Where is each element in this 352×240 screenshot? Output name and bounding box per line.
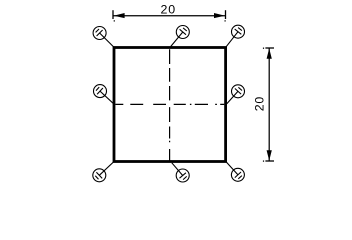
marker bottom-left: leader [99, 162, 113, 175]
marker right-middle: leader [227, 91, 238, 104]
marker bottom-middle: leader [172, 163, 183, 176]
marker top-right: hatch lines [235, 28, 242, 35]
svg-text:20: 20 [253, 96, 267, 111]
marker top-right: circle [232, 25, 245, 38]
marker bottom-left: circle [93, 169, 106, 182]
marker right-middle: circle [232, 85, 245, 98]
marker top-middle: circle [176, 26, 189, 39]
right dimension bottom extension tick [265, 160, 274, 162]
top dimension right extension dot [224, 20, 226, 21]
marker left-middle: circle [94, 85, 107, 98]
square outline 20x20 [114, 48, 226, 162]
top dimension line [113, 15, 226, 17]
right dimension top arrowhead [267, 50, 271, 58]
marker top-right: leader [226, 32, 238, 47]
right dimension bottom arrowhead [267, 151, 271, 159]
marker top-middle: hatch lines [180, 28, 187, 35]
vertical centerline [169, 49, 171, 160]
svg-text:20: 20 [161, 3, 176, 17]
right dimension line [268, 48, 270, 161]
marker bottom-left: hatch lines [95, 172, 102, 179]
marker top-left: circle [93, 27, 106, 40]
right dimension top extension dot [263, 47, 264, 49]
horizontal centerline [115, 103, 224, 105]
marker bottom-right: circle [231, 168, 244, 181]
marker right-middle: hatch lines [235, 87, 242, 94]
top dimension right extension tick [225, 10, 227, 19]
marker bottom-right: hatch lines [235, 172, 242, 179]
right dimension top extension tick [265, 47, 274, 49]
top dimension right arrowhead [214, 14, 223, 18]
marker bottom-middle: hatch lines [180, 173, 187, 180]
marker left-middle: hatch lines [96, 87, 103, 94]
top dimension left extension dot [113, 20, 115, 21]
marker left-middle: leader [100, 91, 114, 104]
top dimension left arrowhead [116, 14, 125, 18]
marker top-left: leader [100, 33, 114, 47]
marker top-middle: leader [171, 32, 183, 47]
marker bottom-right: leader [226, 162, 238, 175]
right dimension bottom extension dot [263, 160, 264, 162]
marker bottom-middle: circle [176, 169, 189, 182]
top dimension left extension tick [112, 10, 114, 19]
marker top-left: hatch lines [96, 29, 103, 36]
